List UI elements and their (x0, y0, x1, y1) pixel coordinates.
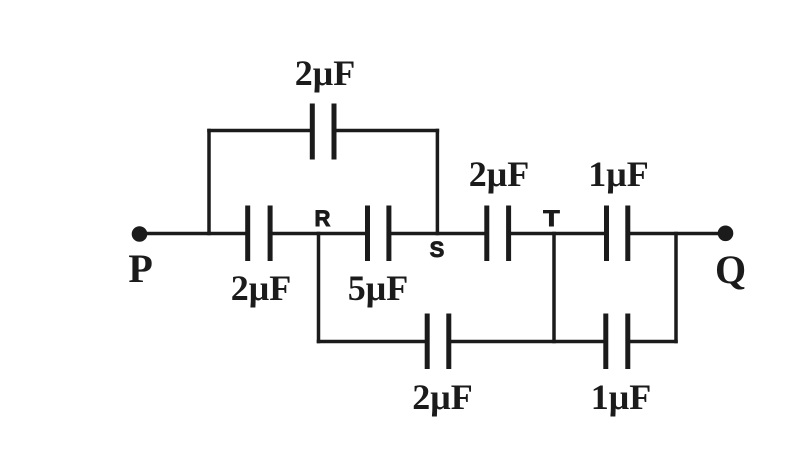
svg-text:1μF: 1μF (591, 377, 651, 417)
wire top-branch horizontal left (209, 129, 312, 133)
wire C3 to C4 (509, 232, 605, 236)
svg-text:2μF: 2μF (469, 154, 529, 194)
capacitor C5 2uF bottom plates (427, 314, 449, 370)
wire C2 to C3 (389, 232, 485, 236)
svg-text:1μF: 1μF (588, 154, 648, 194)
wire C5 to C6 (449, 340, 604, 344)
svg-text:Q: Q (715, 247, 746, 292)
wire node R down vertical (317, 234, 321, 342)
wire top-branch horizontal right (334, 129, 437, 133)
svg-text:2μF: 2μF (295, 53, 355, 93)
wire bottom-branch right vertical (674, 234, 678, 342)
capacitor C3 2uF plates (487, 206, 509, 262)
capacitor C6 1uF bottom plates (606, 314, 628, 370)
wire C6 to bottom-branch right vertical (628, 340, 676, 344)
capacitor C2 5uF plates (368, 206, 389, 262)
svg-text:2μF: 2μF (231, 268, 291, 308)
terminal Q (718, 226, 734, 242)
wire top-branch right vertical (436, 131, 440, 234)
capacitor Ctop 2uF plates (312, 104, 334, 160)
svg-text:R: R (314, 206, 330, 231)
svg-text:S: S (430, 237, 445, 262)
capacitor C4 1uF plates (607, 206, 628, 262)
terminal P (132, 226, 148, 242)
svg-text:2μF: 2μF (412, 377, 472, 417)
wire C4 to terminal Q (628, 232, 722, 236)
wire top-branch left vertical (207, 131, 211, 234)
svg-text:5μF: 5μF (348, 268, 408, 308)
wire P to capacitor C1 (140, 232, 246, 236)
wire C1 to C2 (270, 232, 365, 236)
capacitor C1 2uF plates (248, 206, 270, 262)
wire node T down vertical (552, 234, 556, 342)
svg-text:P: P (128, 246, 152, 291)
wire bottom-branch horizontal left (319, 340, 426, 344)
svg-text:T: T (543, 207, 559, 231)
